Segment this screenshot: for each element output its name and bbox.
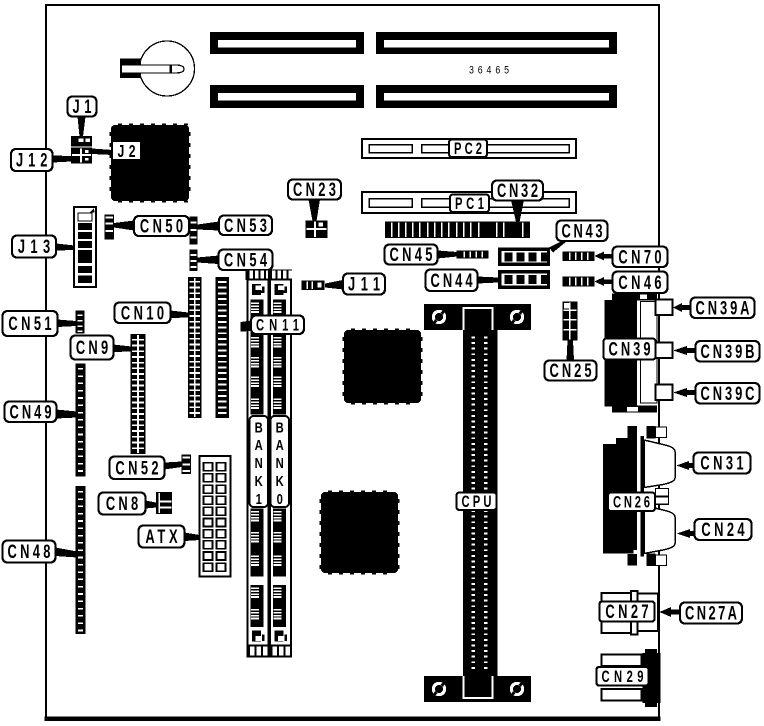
svg-text:CN26: CN26	[613, 492, 650, 511]
wire CN43 leader	[549, 241, 567, 253]
label J12	[11, 149, 53, 171]
label CN27	[600, 602, 655, 623]
svg-text:N: N	[255, 455, 263, 472]
connector CN48	[76, 486, 86, 634]
wire CN49 leader	[56, 410, 77, 419]
svg-text:PC2: PC2	[454, 139, 482, 158]
svg-text:ATX: ATX	[145, 527, 177, 548]
label CN11	[251, 315, 304, 334]
connector CN9	[131, 334, 146, 454]
wire CN46 leader	[595, 277, 614, 286]
wire CN53 leader	[198, 222, 220, 231]
wire CN32 leader	[511, 200, 524, 222]
label CN49	[5, 402, 57, 424]
board number 36465	[469, 65, 509, 77]
label CN31	[694, 453, 751, 475]
svg-text:B: B	[255, 419, 263, 436]
svg-text:CN52: CN52	[115, 458, 158, 479]
label CPU	[457, 492, 497, 511]
wire CN39C leader	[673, 388, 696, 397]
label CN32	[492, 181, 543, 202]
battery clip arm	[122, 65, 185, 73]
connector CN54	[190, 250, 198, 272]
ISA slot segment bottom-right	[376, 85, 617, 108]
svg-text:N: N	[276, 455, 284, 472]
connector CN39 body	[605, 294, 658, 413]
svg-text:CPU: CPU	[462, 492, 492, 511]
wire CN39B leader	[673, 346, 696, 355]
label CN54	[219, 250, 273, 272]
board outline	[45, 5, 661, 721]
connector CN51	[76, 311, 85, 334]
label CN8	[99, 493, 146, 515]
wire CN45 leader	[438, 251, 458, 259]
label CN46	[613, 272, 668, 294]
connector CN25	[563, 302, 578, 341]
PCI slot PC1	[362, 192, 576, 213]
svg-text:CN48: CN48	[8, 542, 51, 563]
wire CN39A leader	[673, 303, 691, 312]
connector CN32 header	[385, 222, 530, 239]
svg-text:CN50: CN50	[140, 216, 183, 237]
svg-text:J12: J12	[16, 150, 47, 171]
connector CN8	[156, 492, 172, 514]
svg-text:CN10: CN10	[121, 303, 164, 324]
label J2	[113, 142, 140, 162]
label CN23	[288, 180, 341, 201]
label CN51	[3, 311, 58, 336]
connector J13	[74, 207, 96, 287]
svg-text:CN23: CN23	[293, 180, 336, 201]
CPU slot bottom bracket	[424, 676, 531, 702]
label PC2	[449, 139, 487, 158]
label PC1	[450, 194, 489, 213]
label CN52	[110, 457, 165, 480]
wire CN70 leader	[595, 252, 614, 261]
wire CN9 leader	[114, 345, 132, 353]
label BANK1	[250, 416, 269, 507]
svg-text:CN39: CN39	[608, 339, 650, 360]
connector CN29 shield	[643, 649, 661, 707]
label CN44	[426, 270, 478, 292]
connector CN39C jack	[656, 385, 673, 401]
svg-text:CN9: CN9	[76, 338, 108, 359]
svg-text:CN70: CN70	[618, 247, 661, 268]
battery clip block	[120, 59, 141, 79]
label CN26	[608, 492, 655, 511]
wire J13 leader	[56, 244, 74, 251]
connector CN49	[76, 364, 86, 477]
label J11	[343, 274, 385, 296]
wire J1 leader	[78, 117, 86, 137]
connector CN39B jack	[656, 343, 673, 359]
label CN43	[557, 221, 608, 243]
connector CN70	[563, 252, 595, 262]
svg-text:A: A	[276, 437, 284, 454]
wire CN27A leader	[660, 607, 681, 617]
wire CN51 leader	[58, 320, 77, 328]
label CN39	[604, 339, 656, 361]
connector ATX power	[200, 456, 231, 577]
svg-text:K: K	[255, 472, 263, 489]
svg-text:J11: J11	[348, 274, 380, 295]
label CN39A	[691, 298, 755, 320]
svg-text:CN27A: CN27A	[685, 603, 737, 624]
connector CN27	[602, 591, 659, 635]
connector CN50	[105, 215, 115, 240]
svg-text:PC1: PC1	[455, 194, 484, 213]
jumper J2/J12 block	[71, 148, 92, 164]
wire CN24 leader	[677, 529, 698, 538]
connector CN44	[498, 270, 550, 289]
svg-text:CN43: CN43	[561, 221, 602, 242]
label CN70	[613, 247, 668, 269]
chip U1 (near J2)	[109, 123, 190, 202]
connector CN46	[563, 277, 595, 287]
label CN53	[219, 216, 272, 237]
svg-text:K: K	[276, 472, 284, 489]
svg-text:CN51: CN51	[8, 314, 51, 335]
jumper J1 block	[71, 136, 92, 147]
svg-text:A: A	[255, 437, 263, 454]
wire CN52 leader	[165, 462, 182, 470]
wire J2 leader	[92, 149, 113, 156]
chip U2	[342, 328, 422, 404]
wire J12 leader	[53, 156, 72, 163]
ISA slot segment top-left	[210, 32, 364, 54]
label CN10	[115, 303, 171, 325]
label J13	[12, 236, 56, 258]
connector CN39 shell	[641, 302, 658, 404]
wire CN48 leader	[56, 548, 78, 558]
svg-text:CN31: CN31	[700, 453, 743, 474]
label CN27A	[680, 603, 742, 625]
svg-text:CN46: CN46	[618, 273, 661, 294]
label BANK0	[271, 416, 290, 507]
PCI slot PC2	[362, 139, 576, 158]
svg-text:CN24: CN24	[701, 520, 744, 541]
svg-text:CN8: CN8	[106, 494, 138, 515]
svg-text:CN44: CN44	[430, 271, 472, 292]
label CN9	[71, 336, 114, 360]
svg-text:CN45: CN45	[390, 245, 433, 266]
connector CN43	[498, 248, 550, 267]
wire CN31 leader	[677, 461, 697, 470]
wire CN8 leader	[146, 501, 157, 509]
svg-text:CN49: CN49	[9, 402, 51, 423]
svg-text:CN53: CN53	[224, 216, 267, 237]
label CN24	[695, 519, 752, 541]
connector CN10 strip A	[188, 277, 202, 418]
wire CN44 leader	[478, 277, 499, 284]
wire CN25 leader	[567, 341, 575, 361]
wire CN11 leader	[241, 321, 252, 332]
svg-text:J13: J13	[18, 237, 50, 258]
CPU slot top bracket	[424, 304, 531, 330]
connector CN10 strip B	[216, 277, 230, 418]
battery circle	[140, 41, 195, 96]
DIMM socket BANK0	[268, 270, 292, 657]
connector CN29 port A	[602, 655, 642, 667]
connector J11	[302, 281, 325, 291]
wire CN10 leader	[171, 311, 189, 319]
label J1	[68, 97, 97, 118]
svg-text:CN25: CN25	[549, 361, 591, 382]
ISA slot segment bottom-left	[210, 85, 364, 108]
label CN29	[597, 667, 649, 686]
svg-text:CN39B: CN39B	[701, 342, 755, 363]
label CN39B	[696, 341, 760, 363]
label CN25	[545, 361, 597, 382]
wire ATX leader	[185, 533, 200, 542]
connector CN31 shell	[644, 440, 675, 488]
wire CN54 leader	[198, 256, 219, 265]
connector CN26 mid tab	[656, 489, 669, 505]
svg-text:1: 1	[256, 490, 262, 507]
label CN50	[134, 216, 189, 237]
label ATX	[139, 526, 185, 548]
wire CN50 leader	[114, 221, 134, 231]
svg-text:CN32: CN32	[497, 181, 538, 202]
svg-text:B: B	[276, 419, 284, 436]
label CN48	[3, 541, 56, 563]
chip U3	[319, 490, 399, 574]
connector CN39A jack	[656, 300, 673, 316]
wire CN23 leader	[309, 200, 321, 222]
svg-text:CN39A: CN39A	[696, 298, 750, 319]
CPU slot body	[463, 330, 498, 676]
connector CN29 port B	[602, 689, 642, 701]
label CN39C	[696, 383, 760, 405]
connector CN53	[190, 217, 198, 245]
connector CN26 body	[603, 426, 667, 566]
wire J11 leader	[325, 280, 343, 290]
svg-text:CN54: CN54	[224, 250, 267, 271]
label CN45	[385, 245, 438, 266]
connector CN24 shell	[644, 506, 675, 554]
svg-text:CN27: CN27	[605, 602, 648, 623]
connector CN45	[457, 251, 489, 259]
DIMM socket BANK1	[246, 270, 270, 657]
ISA slot segment top-right	[376, 32, 617, 54]
svg-text:0: 0	[277, 490, 283, 507]
connector CN23	[306, 221, 328, 239]
connector CN52	[182, 455, 192, 475]
svg-text:CN39C: CN39C	[701, 384, 755, 405]
